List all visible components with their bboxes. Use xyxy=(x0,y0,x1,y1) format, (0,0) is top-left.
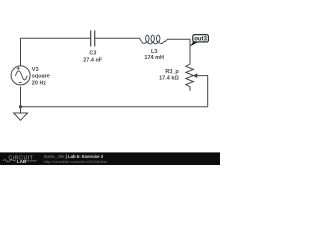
svg-text:square: square xyxy=(32,74,50,80)
svg-text:V3: V3 xyxy=(32,67,39,73)
capacitor C3 xyxy=(91,30,95,46)
svg-text:20 Hz: 20 Hz xyxy=(32,80,47,86)
svg-text:out3: out3 xyxy=(194,36,207,42)
labels xyxy=(32,49,180,86)
svg-text:LAB: LAB xyxy=(17,159,27,164)
svg-text:C3: C3 xyxy=(89,50,96,56)
node out3 flag xyxy=(190,35,209,47)
resistor R3_p (potentiometer) xyxy=(186,64,194,91)
svg-text:L3: L3 xyxy=(151,49,157,55)
svg-text:174 mH: 174 mH xyxy=(144,55,164,61)
wire xyxy=(21,38,91,66)
wire xyxy=(20,87,22,113)
footer bar xyxy=(0,152,220,165)
junction dot xyxy=(19,105,22,108)
voltage source V3 xyxy=(11,66,30,85)
svg-text:R3_p: R3_p xyxy=(165,69,179,75)
wire (bottom rail) xyxy=(21,106,208,108)
svg-text:27.4 nF: 27.4 nF xyxy=(83,57,103,63)
wire xyxy=(95,38,141,41)
svg-text:http://circuitlab.com/c6eu4933: http://circuitlab.com/c6eu49338c6av xyxy=(44,159,108,164)
wire (wiper) xyxy=(197,76,208,107)
inductor L3 xyxy=(142,35,166,44)
potentiometer wiper arrow xyxy=(193,73,198,78)
ground xyxy=(14,113,28,120)
wire xyxy=(165,39,190,64)
svg-text:17.4 kΩ: 17.4 kΩ xyxy=(159,75,179,81)
